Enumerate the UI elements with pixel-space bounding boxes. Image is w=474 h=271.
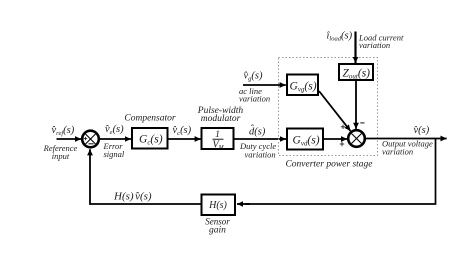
svg-text:H(s): H(s) [208,200,227,211]
label: Error signal [103,141,125,159]
S2 plus sign lower (Gvd input) [340,142,344,146]
label: Pulse-width modulator [197,106,244,124]
S1 minus sign [89,143,94,145]
svg-text:input: input [52,151,70,161]
svg-text:gain: gain [209,225,226,235]
svg-text:variation: variation [239,94,270,104]
svg-text:signal: signal [104,149,125,159]
S2 plus sign upper (diagonal input) [341,125,345,129]
wire: Gvg diagonal to summing node [319,91,351,131]
wire: output arrow v(s) [366,138,447,140]
svg-text:îload(s): îload(s) [327,31,353,43]
wire: Gvd to summing node arrow [323,138,347,140]
block H(s) sensor [202,195,236,216]
svg-text:Gc(s): Gc(s) [139,134,163,147]
dashed box: converter power stage [279,58,378,156]
block Zout(s) [339,64,373,81]
summing node S1 [82,131,99,148]
wire: vg input arrow [243,84,286,86]
wire: error signal arrow [100,138,131,140]
summing node S2 [348,130,365,147]
label: Reference input [43,143,78,161]
S2 minus sign [360,122,364,124]
wire: iload arrow into Zout [354,32,356,64]
svg-text:modulator: modulator [201,114,241,124]
wire: PWM to Gvd arrow [235,138,287,140]
S1 plus sign [84,137,87,140]
wire: Gc to PWM arrow [169,138,201,140]
wire: feedback branch down and along bottom [245,139,436,205]
label: Sensor gain [205,217,230,236]
wire: Zout to summing node S2 [355,81,357,129]
svg-text:H(s)v̂(s): H(s)v̂(s) [113,190,152,202]
svg-text:Zout(s): Zout(s) [343,68,371,81]
block Gvd(s) [287,129,323,150]
wire: feedback arrow into H(s) [237,203,250,205]
svg-text:v̂g(s): v̂g(s) [243,71,263,83]
svg-text:v̂ref(s): v̂ref(s) [51,125,74,137]
svg-text:variation: variation [382,147,413,157]
label: Load current variation [358,32,404,50]
wire: H(s) output feedback to S1 [90,149,201,204]
label: ac line variation [239,86,270,104]
block Gc(s) compensator [132,128,168,149]
svg-text:variation: variation [359,40,390,50]
block pulse-width modulator 1/VM [202,128,234,151]
label: Duty cycle variation [239,141,276,159]
svg-text:d̂(s): d̂(s) [249,124,266,137]
svg-text:variation: variation [245,150,276,160]
block Gvg(s) [287,75,318,96]
svg-text:v̂e(s): v̂e(s) [105,124,124,136]
svg-text:v̂c(s): v̂c(s) [172,125,191,137]
svg-text:v̂(s): v̂(s) [413,125,429,136]
svg-text:Gvd(s): Gvd(s) [293,135,320,148]
label: Output voltage variation [382,139,433,157]
svg-text:Compensator: Compensator [124,114,176,124]
wire: vref input arrow [57,138,82,140]
svg-text:VM: VM [213,140,225,152]
svg-text:Gvg(s): Gvg(s) [290,80,317,93]
svg-text:Converter power stage: Converter power stage [285,160,372,170]
